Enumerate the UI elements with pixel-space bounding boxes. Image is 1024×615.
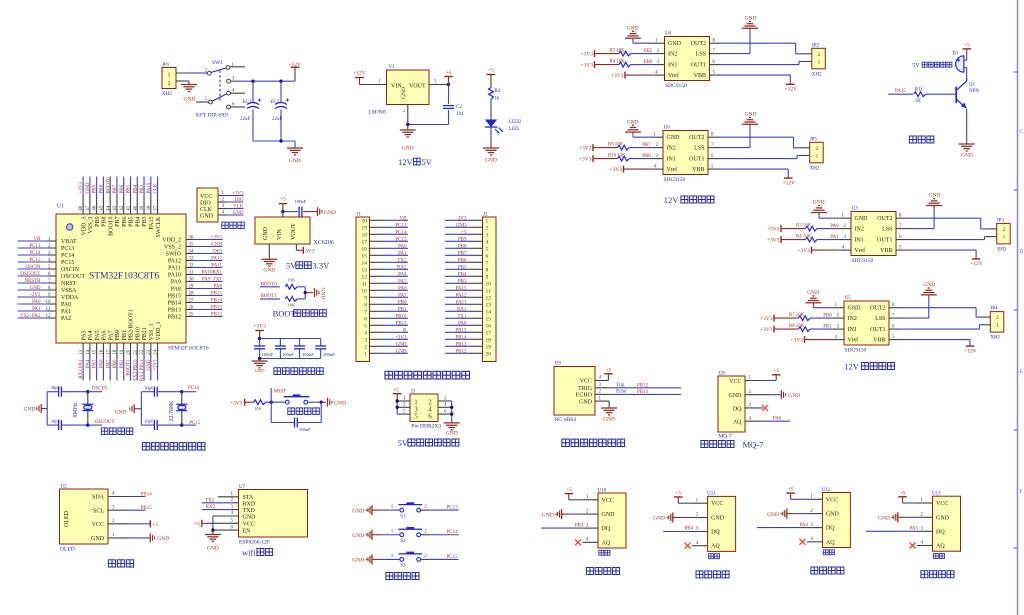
svg-text:PB13: PB13 <box>211 305 223 310</box>
J2 pin 13 PA11 <box>445 300 491 308</box>
ground GND below filter caps <box>252 359 268 374</box>
J2 pin 12 PA12 <box>445 293 491 301</box>
svg-text:OUT1: OUT1 <box>877 238 892 244</box>
svg-text:PA5: PA5 <box>93 359 98 368</box>
net PC15 at S3 <box>421 554 459 560</box>
ground GND below XC6206 <box>261 257 277 273</box>
capacitor 30pF c1 top <box>47 385 88 397</box>
net Echo PB13 <box>595 390 681 396</box>
U1 left pin 10 PA0 <box>18 300 72 308</box>
ic U13 IR tracking body <box>932 492 961 559</box>
svg-text:D: D <box>1020 250 1024 255</box>
svg-text:VCC: VCC <box>729 379 741 385</box>
svg-text:12V: 12V <box>398 157 414 167</box>
svg-text:VB: VB <box>34 237 42 242</box>
svg-text:SW1: SW1 <box>212 60 223 66</box>
svg-text:2: 2 <box>168 81 171 87</box>
ground GND at U9 <box>595 396 617 422</box>
resistor R9 10K <box>593 142 663 150</box>
svg-text:IN2: IN2 <box>667 146 676 152</box>
filter capacitor 2 <box>275 339 294 359</box>
wire J3 right rail <box>438 396 452 420</box>
wire V1 gnd net <box>408 105 449 125</box>
J2 pin 17 PB15 <box>445 328 491 336</box>
junction <box>396 399 399 402</box>
svg-text:VOUT: VOUT <box>291 223 297 240</box>
caption wifi module <box>242 548 273 558</box>
svg-text:PB6: PB6 <box>458 258 467 263</box>
svg-text:PA6: PA6 <box>100 359 105 368</box>
svg-text:PA12: PA12 <box>211 256 222 261</box>
svg-text:PB5: PB5 <box>129 217 135 227</box>
svg-text:GND: GND <box>86 182 91 193</box>
capacitor 30pF c1 bottom <box>47 419 88 431</box>
net RX2 at U7 TXD <box>202 505 239 510</box>
svg-text:EN: EN <box>243 528 252 534</box>
svg-text:+5: +5 <box>488 68 494 74</box>
resistor R4 10K <box>781 234 851 242</box>
svg-text:PC13: PC13 <box>29 244 41 249</box>
svg-text:PC13: PC13 <box>395 223 407 228</box>
junction <box>180 390 183 393</box>
no-connect U12 AQ <box>799 537 822 545</box>
svg-text:100nF: 100nF <box>299 427 311 432</box>
svg-text:SDC9150: SDC9150 <box>845 348 867 354</box>
svg-text:PA7: PA7 <box>108 330 114 340</box>
U1 top pin 47 VSS_3 <box>86 177 94 234</box>
svg-text:PB7: PB7 <box>458 251 467 256</box>
U1 bottom pin 19 PB1 <box>120 330 128 380</box>
svg-text:+3V3: +3V3 <box>767 226 780 232</box>
svg-text:PA0: PA0 <box>398 244 407 249</box>
svg-text:28: 28 <box>189 291 195 296</box>
power +3V3 at U6 Vref <box>609 166 663 173</box>
power +12V at U5 VBB <box>889 340 977 355</box>
power +5 at J3 <box>393 387 402 401</box>
sheet border <box>1014 0 1024 615</box>
svg-text:+5: +5 <box>393 387 399 393</box>
svg-text:+3V3: +3V3 <box>609 167 622 173</box>
svg-text:+5: +5 <box>605 368 611 374</box>
svg-text:5V: 5V <box>422 157 433 167</box>
U1 bottom pin 16 PA6 <box>100 330 108 380</box>
svg-text:S3: S3 <box>400 564 406 569</box>
svg-text:+5: +5 <box>461 230 467 235</box>
net PC15 <box>182 421 201 426</box>
svg-text:5: 5 <box>486 247 489 253</box>
svg-text:PA1: PA1 <box>830 235 839 240</box>
svg-text:15: 15 <box>93 349 98 355</box>
svg-text:30pF: 30pF <box>144 419 154 424</box>
caption mcu pin headers <box>385 371 470 379</box>
junction <box>447 83 450 86</box>
svg-text:MQ-7: MQ-7 <box>741 440 764 450</box>
J1 pin 15 PA1 <box>362 251 409 259</box>
svg-text:SWIO: SWIO <box>166 252 182 258</box>
svg-text:U4: U4 <box>665 32 672 37</box>
wire U7 EN pin <box>213 525 239 530</box>
J2 pin 5 PB8 <box>445 244 489 252</box>
svg-text:PB13: PB13 <box>637 390 649 395</box>
wire SW1 pin3 to 12V rail <box>230 80 295 82</box>
filter capacitor 4 <box>315 339 335 359</box>
ground GND at U4 pin1 <box>625 25 665 43</box>
svg-text:2: 2 <box>364 345 367 351</box>
svg-text:9: 9 <box>486 275 489 281</box>
svg-text:DQ: DQ <box>826 526 835 532</box>
svg-text:13: 13 <box>362 268 368 274</box>
svg-text:+3V3: +3V3 <box>611 73 624 79</box>
svg-text:TX2 PA2: TX2 PA2 <box>20 314 41 319</box>
U1 top pin 44 BOOT0 <box>106 177 114 236</box>
net label BOOT1 <box>260 294 280 299</box>
svg-text:PA4: PA4 <box>88 330 94 340</box>
svg-text:PB3: PB3 <box>142 217 148 227</box>
power +3V3 at R10 <box>579 155 593 162</box>
U1 right pin 30 PA9 <box>171 277 223 285</box>
svg-text:37: 37 <box>154 205 159 211</box>
svg-text:JP2: JP2 <box>812 43 820 48</box>
svg-text:GND: GND <box>711 516 725 522</box>
U6 pin numbers <box>654 132 715 169</box>
U1 top pin 40 PB4 <box>133 177 141 227</box>
U1 left pin 7 NRST <box>18 279 77 287</box>
wire buzzer to Q1 collector <box>966 68 968 78</box>
svg-text:2: 2 <box>815 146 818 152</box>
J1 pin 1 GND <box>364 349 408 357</box>
svg-text:GND: GND <box>745 112 757 118</box>
svg-text:GND: GND <box>30 286 41 291</box>
svg-text:+3V3: +3V3 <box>395 335 407 340</box>
svg-text:1: 1 <box>818 60 821 66</box>
svg-text:PC14: PC14 <box>188 386 200 391</box>
resistor R10 10K <box>593 153 663 161</box>
svg-text:5V: 5V <box>912 63 920 69</box>
ground port GND at S2 <box>352 530 383 540</box>
svg-text:J3: J3 <box>411 389 416 394</box>
svg-text:JP3: JP3 <box>997 218 1005 223</box>
power +12V at U6 VBB <box>708 169 795 186</box>
U1 bottom pin 14 PA4 <box>86 330 94 380</box>
svg-text:GND: GND <box>485 158 497 164</box>
svg-text:21: 21 <box>133 349 138 355</box>
svg-text:PC15: PC15 <box>61 260 74 266</box>
svg-text:33: 33 <box>189 256 195 261</box>
ic U11 IR tracking body <box>707 492 736 559</box>
svg-text:39: 39 <box>140 205 145 211</box>
ground GND at buzzer <box>959 142 975 159</box>
svg-text:6: 6 <box>486 254 489 260</box>
svg-text:2: 2 <box>818 52 821 58</box>
svg-text:OUT1: OUT1 <box>689 157 704 163</box>
svg-text:+3V3: +3V3 <box>79 182 84 194</box>
net NRST <box>271 388 286 402</box>
svg-text:GND: GND <box>848 306 862 312</box>
junction <box>279 139 282 142</box>
J2 pin 4 PB9 <box>445 237 489 245</box>
power +5 at buzzer <box>962 43 971 61</box>
svg-text:LM7805: LM7805 <box>369 111 387 116</box>
U1 right pin 28 PB15 <box>168 291 223 299</box>
crystal 8MHz <box>73 392 93 425</box>
resistor R11 1K <box>914 87 956 103</box>
U1 bottom pin 18 PB0 <box>113 330 121 380</box>
svg-text:PA11: PA11 <box>168 266 181 272</box>
svg-text:SWCLK: SWCLK <box>156 216 162 238</box>
svg-text:U5: U5 <box>845 296 852 301</box>
svg-text:3: 3 <box>486 233 489 239</box>
svg-text:PB15: PB15 <box>168 294 181 300</box>
svg-text:GND: GND <box>263 226 269 240</box>
svg-text:GND: GND <box>255 368 266 373</box>
svg-text:PA8: PA8 <box>458 321 467 326</box>
svg-text:45: 45 <box>100 205 105 211</box>
svg-text:PC14: PC14 <box>395 230 407 235</box>
svg-text:PB13: PB13 <box>455 342 467 347</box>
svg-text:14: 14 <box>486 310 492 316</box>
svg-text:CLK: CLK <box>200 207 213 213</box>
svg-text:11: 11 <box>46 307 51 312</box>
svg-text:GND: GND <box>603 417 615 423</box>
J1 pin 9 PA7 <box>364 293 408 301</box>
connector JP4 <box>990 307 1004 341</box>
ic U10 IR tracking body <box>598 488 627 555</box>
svg-text:1: 1 <box>815 154 818 160</box>
svg-text:J2: J2 <box>483 213 488 218</box>
svg-text:JP1: JP1 <box>162 63 170 68</box>
wire JP1 pin2 stub <box>176 80 189 82</box>
J2 pin 14 RX1 <box>445 307 491 315</box>
svg-text:IN2: IN2 <box>855 227 864 233</box>
svg-text:KFT DIP-8X8: KFT DIP-8X8 <box>196 113 228 119</box>
svg-text:PA1: PA1 <box>398 251 407 256</box>
svg-text:46: 46 <box>93 205 98 211</box>
U4 pin numbers <box>655 38 716 75</box>
junction <box>320 401 323 404</box>
svg-text:12: 12 <box>362 275 368 281</box>
svg-text:PB4: PB4 <box>135 217 141 227</box>
svg-text:+12V: +12V <box>353 71 366 77</box>
svg-text:PB8: PB8 <box>102 217 108 227</box>
svg-text:PA9 TX1: PA9 TX1 <box>202 277 223 282</box>
svg-text:DQ: DQ <box>936 529 945 535</box>
svg-text:PB9: PB9 <box>458 237 467 242</box>
svg-text:+12V: +12V <box>783 180 796 186</box>
svg-text:SCL: SCL <box>93 508 104 514</box>
svg-text:8: 8 <box>486 268 489 274</box>
svg-text:2: 2 <box>1002 227 1005 233</box>
svg-text:NPN: NPN <box>969 89 979 94</box>
svg-text:19: 19 <box>486 345 492 351</box>
svg-text:GND: GND <box>878 516 890 522</box>
svg-text:42: 42 <box>120 205 125 211</box>
ic U4 SDC9150 body <box>665 32 710 90</box>
svg-text:R8 10K: R8 10K <box>789 324 805 329</box>
J1 pin 20 VB <box>362 216 409 224</box>
svg-text:+5: +5 <box>773 368 779 374</box>
svg-text:LSS: LSS <box>875 316 885 322</box>
svg-text:GND: GND <box>263 268 275 274</box>
svg-text:PA12: PA12 <box>168 259 181 265</box>
svg-text:PC13: PC13 <box>447 506 459 511</box>
capacitor C2 <box>443 85 464 125</box>
svg-text:+5: +5 <box>446 70 452 76</box>
buzzer B1 <box>953 52 967 73</box>
U1 left pin 5 OSCIN <box>18 265 80 273</box>
svg-text:DIO: DIO <box>200 201 211 207</box>
svg-text:R9 10K: R9 10K <box>608 142 624 147</box>
svg-text:+3V3: +3V3 <box>579 156 592 162</box>
svg-text:GND: GND <box>627 25 639 31</box>
junction <box>279 80 282 83</box>
svg-text:GND: GND <box>91 536 105 542</box>
J1 pin 13 RX2 <box>362 265 409 273</box>
wire XC6206 gnd pin <box>268 244 270 257</box>
svg-text:Vref: Vref <box>855 247 866 254</box>
svg-text:TX1: TX1 <box>457 314 467 319</box>
regulator XC6206 <box>255 212 334 246</box>
svg-text:GND: GND <box>855 216 869 222</box>
switch SW1 <box>196 60 245 119</box>
U1 left pin 1 VBAT <box>18 237 77 245</box>
svg-text:STM32F103C8T6: STM32F103C8T6 <box>168 346 209 352</box>
ground port GND at crystal1 <box>24 404 48 413</box>
svg-text:GND: GND <box>602 512 616 518</box>
U1 right pin 25 PB12 <box>168 312 223 320</box>
svg-text:E: E <box>1020 370 1023 375</box>
svg-text:10K: 10K <box>288 303 297 308</box>
U1 top pin 39 PB3 <box>140 177 148 227</box>
svg-text:VCC: VCC <box>200 194 212 200</box>
svg-text:OUT1: OUT1 <box>870 327 885 333</box>
svg-text:GND: GND <box>729 393 743 399</box>
capacitor 100nF at XC6206 <box>283 199 307 217</box>
svg-text:PA1: PA1 <box>32 307 41 312</box>
svg-text:31: 31 <box>189 270 195 275</box>
svg-text:RX3 PB11: RX3 PB11 <box>140 359 145 381</box>
svg-text:Vref: Vref <box>667 166 678 173</box>
ground port GND at U2 <box>108 533 169 542</box>
caption ultrasonic module <box>562 439 625 446</box>
caption 12V to 5V <box>398 157 433 167</box>
U1 top pin 37 SWCLK <box>154 177 162 238</box>
junction <box>450 406 453 409</box>
svg-text:30pF: 30pF <box>144 385 154 390</box>
svg-text:XH2: XH2 <box>812 72 822 77</box>
svg-text:VDD_3: VDD_3 <box>81 217 87 236</box>
U1 right pin 34 SWIO <box>166 249 223 257</box>
svg-text:U13: U13 <box>932 492 941 497</box>
svg-text:OUT2: OUT2 <box>691 41 706 47</box>
caption reset circuit <box>288 408 320 415</box>
svg-text:GND: GND <box>211 242 222 247</box>
svg-text:24: 24 <box>154 349 159 355</box>
U1 left pin 11 PA1 <box>18 307 72 315</box>
svg-text:U12: U12 <box>822 488 831 493</box>
led LED2 <box>485 120 522 134</box>
svg-text:GND: GND <box>334 400 346 406</box>
caption 12V DC motor lower <box>844 362 894 372</box>
ground port GND at U8 <box>745 390 800 399</box>
svg-text:+3V3: +3V3 <box>790 337 803 343</box>
U1 left pin 2 PC13 <box>18 244 75 252</box>
svg-text:PA15: PA15 <box>895 89 906 94</box>
svg-text:PA9: PA9 <box>171 280 181 286</box>
connector J1 body <box>356 213 370 362</box>
svg-text:30pF: 30pF <box>51 385 61 390</box>
svg-text:PA5: PA5 <box>95 330 101 340</box>
svg-text:GND: GND <box>929 193 941 199</box>
ground port GND at reset <box>321 398 346 407</box>
svg-text:ESP8266-12F: ESP8266-12F <box>239 539 270 545</box>
power +12V at U4 VBB <box>710 75 798 92</box>
svg-text:26: 26 <box>189 305 195 310</box>
svg-text:16: 16 <box>486 324 492 330</box>
svg-text:PA5: PA5 <box>910 527 919 532</box>
svg-text:+5: +5 <box>964 43 970 49</box>
svg-text:GND: GND <box>289 158 301 164</box>
svg-text:BOOT0: BOOT0 <box>106 177 111 194</box>
svg-text:+12V: +12V <box>785 87 798 93</box>
svg-text:1: 1 <box>486 219 489 225</box>
svg-text:PA15: PA15 <box>149 217 155 230</box>
J1 pin 3 +3V3 <box>364 335 408 343</box>
svg-text:38: 38 <box>147 205 152 211</box>
svg-text:+5: +5 <box>675 491 681 497</box>
svg-text:OLED: OLED <box>60 547 75 553</box>
caption 12V DC motor upper <box>664 195 714 205</box>
svg-text:PB15: PB15 <box>455 328 467 333</box>
svg-text:Echo: Echo <box>616 390 627 395</box>
svg-text:LED: LED <box>509 127 519 132</box>
svg-text:20: 20 <box>486 352 492 358</box>
svg-text:6: 6 <box>428 413 432 421</box>
svg-text:PB0: PB0 <box>398 300 407 305</box>
svg-text:12V: 12V <box>664 195 680 205</box>
caption independent buttons <box>386 573 419 580</box>
svg-text:PB3: PB3 <box>140 184 145 193</box>
svg-text:PB11: PB11 <box>142 327 148 340</box>
svg-text:+3V3: +3V3 <box>760 327 773 333</box>
ground port GND at boot <box>305 288 325 300</box>
J2 pin 10 PB3 <box>445 279 491 287</box>
svg-text:NRSTR: NRSTR <box>24 279 41 284</box>
svg-text:R6 10K: R6 10K <box>610 59 626 64</box>
svg-text:100nF: 100nF <box>282 352 294 357</box>
svg-text:GND: GND <box>961 153 973 159</box>
ic U8 MQ-7 body <box>718 372 745 440</box>
download port pin 3 <box>218 204 244 209</box>
power +3V3 at R4 <box>767 236 781 243</box>
wire EC bottom rail <box>253 141 295 146</box>
wire U6 OUT1 to JP5 <box>708 156 810 159</box>
svg-text:PB4: PB4 <box>133 184 138 193</box>
svg-text:1: 1 <box>168 73 171 79</box>
svg-text:PA5: PA5 <box>398 279 407 284</box>
svg-text:PC15: PC15 <box>395 237 407 242</box>
U1 bottom pin 23 VSS_1 <box>147 323 155 380</box>
U1 bottom pin 17 PA7 <box>106 330 114 380</box>
svg-text:BOOT0: BOOT0 <box>108 217 114 236</box>
svg-text:GND: GND <box>243 514 257 520</box>
svg-text:PA8: PA8 <box>171 287 181 293</box>
power +5 at U9 <box>595 368 613 381</box>
svg-text:PA8: PA8 <box>214 284 223 289</box>
svg-text:R10 10K: R10 10K <box>608 153 626 158</box>
capacitor EC1 <box>240 81 261 141</box>
svg-text:OSCOUT: OSCOUT <box>20 272 40 277</box>
U1 right pin 31 PA10 <box>168 270 223 278</box>
